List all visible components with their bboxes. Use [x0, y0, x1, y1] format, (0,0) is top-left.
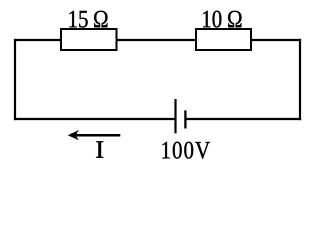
wire: right vertical wire: [299, 39, 301, 120]
label: I current label: [96, 141, 103, 157]
label: 10 ohm value of R2: [203, 11, 241, 28]
wire: left vertical wire: [14, 39, 16, 120]
wire: bottom wire right segment (from battery negative plate): [185, 118, 301, 120]
wire: top wire (left node to right node): [14, 39, 301, 41]
battery V1 positive plate (long): [174, 99, 176, 133]
wire: bottom wire left segment (to battery positive plate): [14, 118, 176, 120]
label: 100V value of battery V1: [162, 142, 210, 159]
battery V1 negative plate (short): [184, 110, 186, 128]
resistor R2 (10 ohm) body: [196, 29, 251, 50]
resistor R1 (15 ohm) body: [61, 29, 117, 50]
current arrow I (pointing left): [68, 130, 121, 141]
label: 15 ohm value of R1: [69, 11, 107, 28]
